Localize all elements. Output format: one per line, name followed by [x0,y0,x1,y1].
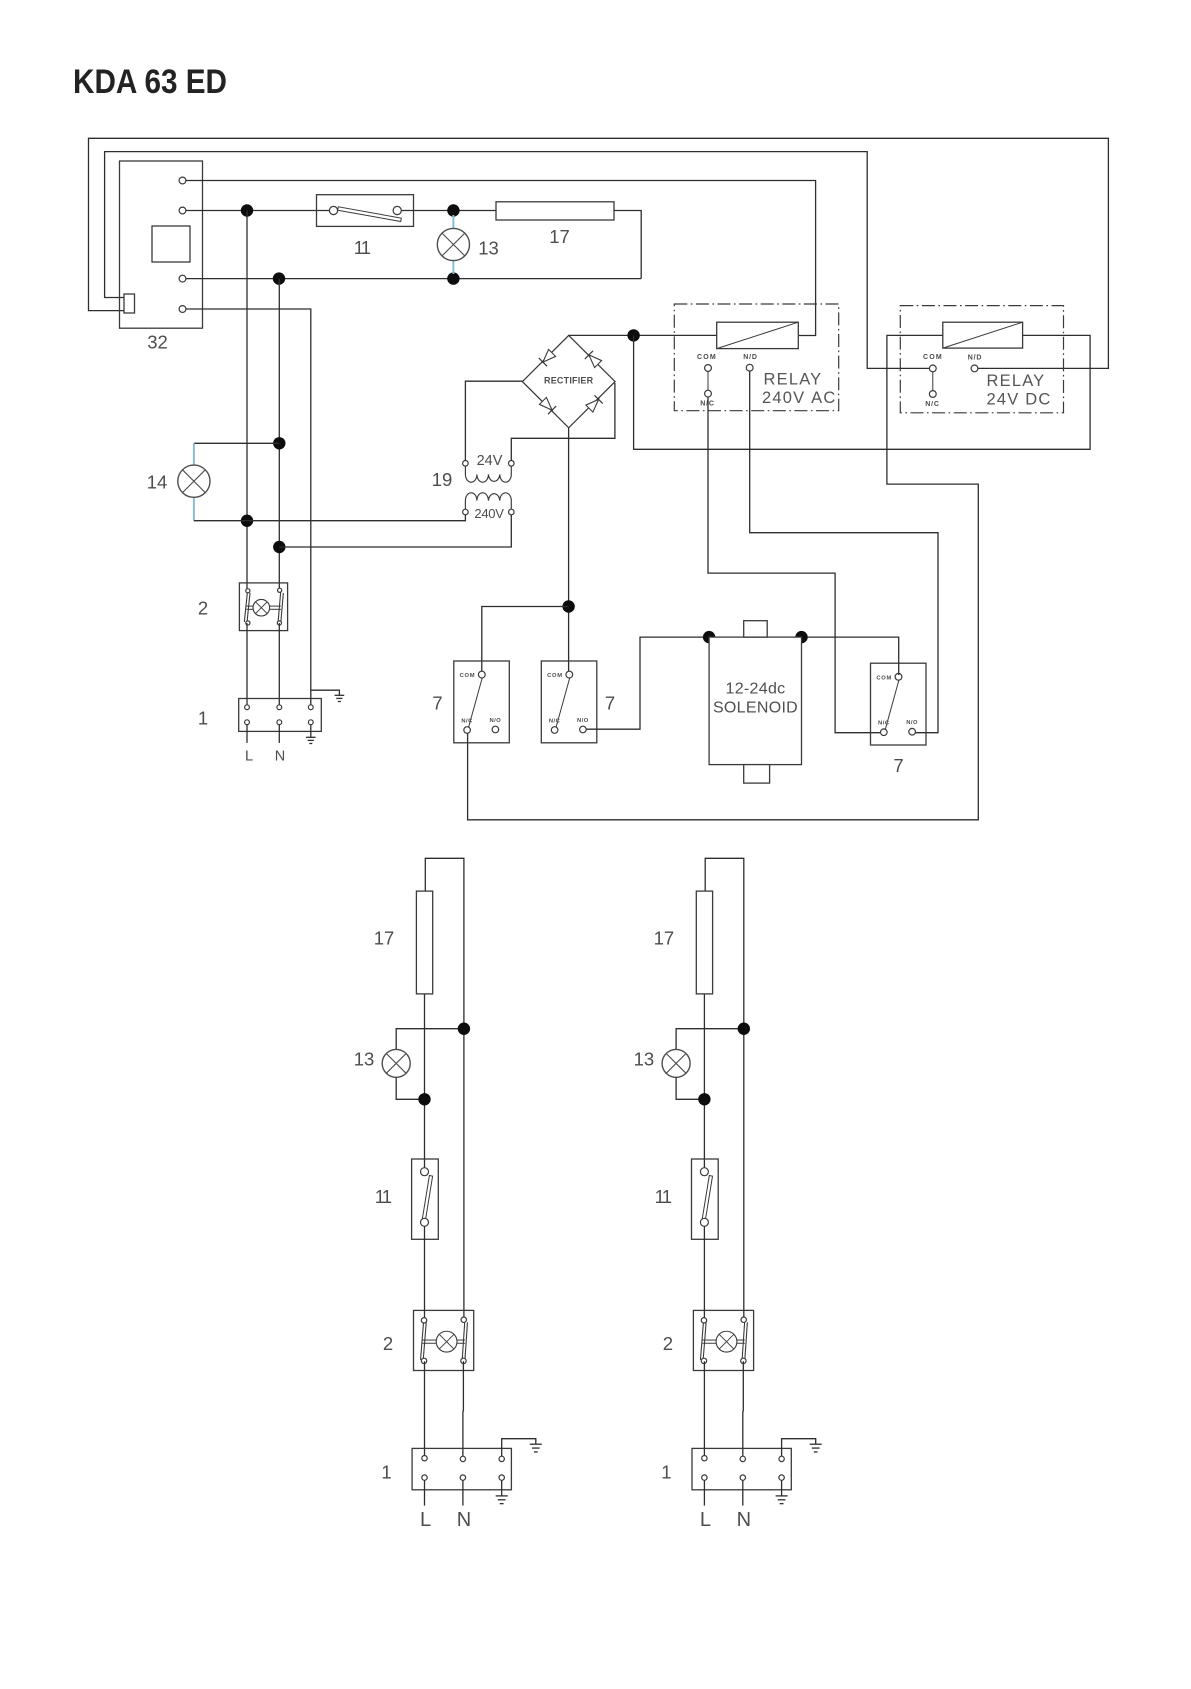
svg-text:L: L [700,1509,711,1531]
node: solenoid top right [795,631,807,643]
wire: blue lead bottom of lamp 14 [193,497,195,521]
transformer T19 240V pin left [463,509,469,515]
switch 11 (lower left) box [412,1159,439,1239]
svg-text:N/O: N/O [489,718,501,724]
relay K2 coil [943,322,1023,348]
node: lamp rejoin (lower right) [698,1093,710,1105]
svg-text:COM: COM [460,673,476,679]
wire: U32 pin1 to RELAY 240V AC coil right [186,181,816,336]
rectifier bridge diamond [522,335,615,427]
lamp 13 (lower right) [662,1049,690,1077]
wire: earth top branch (lower left) [502,1439,536,1457]
relay K1 N/C pin [705,390,712,397]
unit 2 (lower right) pin top-right [741,1317,746,1322]
wire: unit 2 to terminal L (lower right) [703,1361,705,1456]
svg-text:7: 7 [893,755,903,776]
wire: resistor 17 right loop down to lower row [614,211,641,279]
wire: outer frame line 2 (plug to RELAY 24V DC COM) [105,152,930,369]
relay K1 COM pin [705,365,712,372]
U32 pin 3 [179,275,186,282]
wire: K1 N/D down to switch 7 no.3 N/O [750,371,938,733]
svg-text:7: 7 [605,693,615,714]
switch 7 no.3 COM pin [895,673,902,680]
relay K2 COM pin [929,365,936,372]
svg-text:1: 1 [381,1462,391,1483]
unit 2 (lower left) lamp [436,1331,457,1352]
switch 7 no.1 N/C pin [464,727,471,734]
node: lamp branch on right rail (lower left) [458,1022,470,1034]
svg-text:13: 13 [354,1049,375,1070]
unit 2 (lower left) lamp leads [423,1339,437,1341]
svg-text:24V DC: 24V DC [987,391,1052,409]
wire: resistor to switch 11 (lower left) [424,994,426,1169]
svg-text:17: 17 [654,928,675,949]
transformer T19 240V pin right [509,509,515,515]
terminal 1 (top) pin 5 [277,720,282,725]
relay K1 contact lever [707,372,709,391]
switch 11 (lower left) lever [422,1176,432,1220]
lamp 13 (top) [437,228,469,260]
ground (upper right) (lower left) [530,1443,542,1445]
wire: terminal L lead (top) [246,725,248,743]
switch 11 (lower left) pin top [421,1168,429,1176]
switch 7 no.1 N/O pin [492,726,499,733]
solenoid bottom tab [744,765,770,784]
node: solenoid top left [703,631,715,643]
wire: switch 11 to unit 2 (lower right) [703,1226,705,1318]
resistor 17 (lower right) [696,891,712,994]
node: junction at lamp 13 bottom [447,272,459,284]
U32 pin 1 [179,177,186,184]
ground (terminal, top) [306,736,316,738]
svg-text:N/C: N/C [461,719,473,725]
wire: lamp 13 top branch (lower left) [396,1029,464,1050]
svg-text:2: 2 [198,598,208,619]
wire: terminal earth lead (top) [310,725,312,738]
wire: unit 2 to terminal N (lower left) [462,1361,465,1456]
switch 7 no.3 lever [885,680,899,729]
terminal 1 (lower right) pin 6 [779,1475,784,1480]
node: transformer 240V right branch [273,541,285,553]
controller U32 box [120,161,203,328]
switch 7 no.2 COM pin [566,671,573,678]
unit 2 (lower right) lamp [716,1331,737,1352]
wire: unit 2 to terminal N (top) [278,623,280,705]
unit 2 (lower right) left lever [700,1322,703,1360]
wire: unit 2 to terminal N (lower right) [742,1361,745,1456]
svg-text:COM: COM [923,354,943,361]
node: lamp14 top branch [273,437,285,449]
svg-text:COM: COM [697,354,717,361]
terminal 1 (lower right) pin 5 [740,1475,745,1480]
wire: lamp 13 bottom branch (lower left) [396,1077,424,1099]
terminal 1 (lower left) pin 4 [422,1475,427,1480]
wire: junction down and right to DC relay coil right [634,335,1091,449]
terminal 1 (top) pin 4 [245,720,250,725]
unit 2 (lower right) lamp leads [702,1339,716,1341]
switch 7 no.2 box [541,661,597,743]
U32 inner square [152,226,190,262]
svg-text:2: 2 [383,1333,393,1354]
wire: unit 2 to terminal L (lower left) [424,1361,426,1456]
ground (upper right) (lower right) [810,1443,822,1445]
terminal 1 (lower right) pin 1 [702,1456,707,1461]
wire: rectifier bottom down to switches 7 [568,428,570,672]
lamp 13 (lower left) [382,1049,410,1077]
node: rectifier output junction [627,329,639,341]
terminal 1 (top) pin 6 [308,720,313,725]
svg-text:19: 19 [432,469,453,490]
ground (terminal) (lower right) [776,1495,788,1497]
wire: rectifier top to AC relay coil [569,334,717,336]
transformer T19 secondary winding (24V) [465,466,511,482]
wire: vertical from node pin3 down to switch 2 [278,279,280,589]
U32 pin 2 [179,207,186,214]
ground (top earth) [335,694,345,696]
switch 11 (lower right) lever [702,1176,712,1220]
wire: U32 pin2 to switch 11 [186,210,329,212]
switch 7 no.3 N/C pin [881,729,888,736]
node: junction pin3/vertical [273,272,285,284]
wire: terminal L lead (lower left) [424,1480,426,1505]
wire: lamp 13 bottom branch (lower right) [676,1077,704,1099]
svg-text:N/D: N/D [743,354,757,361]
wire: outer frame line 1 (plug to RELAY 24V DC N/D) [89,138,1109,368]
node: lamp branch on right rail (lower right) [738,1022,750,1034]
relay K1 coil diagonal [717,322,799,348]
unit 2 (lower right) pin bottom-left [701,1358,706,1363]
wire: blue lead top of lamp 13 [452,215,454,229]
switch 7 no.3 N/O pin [909,728,916,735]
wire: terminal N lead (lower left) [462,1480,464,1505]
node: junction at lamp 13 top [447,204,459,216]
svg-text:11: 11 [354,237,371,258]
relay K1 240V AC dash-dot enclosure [674,304,838,411]
svg-text:RELAY: RELAY [987,372,1046,390]
solenoid box [709,637,801,765]
svg-text:RECTIFIER: RECTIFIER [544,376,594,386]
unit 2 (top) pin top-left [246,589,250,593]
svg-text:N/D: N/D [968,355,982,362]
wire: unit 2 to terminal L (top) [246,623,248,705]
switch 7 no.1 lever [469,678,483,727]
terminal 1 (lower left) pin 5 [460,1475,465,1480]
wire: vertical from node pin2 down to switch 2 [246,211,248,590]
terminal 1 (top) pin 3 [308,705,313,710]
switch 7 no.3 box [871,663,927,745]
solenoid top tab [744,621,768,637]
switch S11 box (top) [317,195,414,227]
svg-text:7: 7 [432,693,442,714]
wire: blue lead bottom of lamp 13 [452,260,454,274]
relay K2 contact lever [932,372,934,391]
svg-text:13: 13 [634,1049,655,1070]
switch-lamp unit 2 (top) box [239,583,287,631]
resistor 17 (top) [496,202,614,220]
node: switches 7 branch [562,600,574,612]
svg-text:17: 17 [549,226,570,247]
svg-text:14: 14 [147,472,168,493]
relay K1 N/D pin [746,364,753,371]
wire: terminal N lead (lower right) [742,1480,744,1505]
unit 2 (lower left) right lever [462,1322,465,1359]
lamp 14 [178,465,210,497]
unit 2 (lower right) right lever [742,1322,745,1359]
terminal 1 (lower left) pin 6 [499,1475,504,1480]
switch S11 lever [338,207,402,222]
terminal 1 (lower left) pin 3 [499,1456,504,1461]
switch 7 no.1 box [454,661,510,743]
wire: terminal earth lead (lower right) [781,1480,783,1496]
terminal 1 (lower left) pin 2 [460,1456,465,1461]
unit 2 (lower left) pin top-left [421,1318,426,1323]
terminal 1 (lower right) pin 2 [740,1456,745,1461]
svg-text:N: N [457,1509,471,1531]
wire: switch 11 to unit 2 (lower left) [424,1226,426,1318]
U32 plug connector [124,294,135,313]
svg-text:N/C: N/C [925,401,939,408]
wire: U32 pin3 row [186,278,641,280]
resistor 17 (lower left) [416,891,432,994]
wire: 24V left pin up to rectifier left [465,381,522,460]
svg-text:N: N [737,1509,751,1531]
wire: K2 coil left to switch 7 no.1 N/C [468,335,979,819]
wire: U32 pin4 to terminal block [186,309,311,705]
switch 7 no.2 N/C pin [551,727,558,734]
svg-text:11: 11 [375,1186,392,1207]
svg-text:COM: COM [876,675,892,681]
node: junction pin2/vertical [241,204,253,216]
unit 2 (top) right lever [278,592,280,621]
rectifier diode D2 (top-right) [585,351,602,368]
switch 7 no.1 COM pin [478,671,485,678]
unit 2 (lower left) pin top-right [461,1317,466,1322]
wire: branch to switch 7 no.1 COM [482,607,569,672]
wire: top bridge (lower left) [425,858,464,1318]
U32 pin 4 [179,306,186,313]
svg-text:RELAY: RELAY [764,371,823,389]
svg-text:240V AC: 240V AC [762,389,836,407]
unit 2 (lower right) pin bottom-right [741,1358,746,1363]
svg-text:L: L [420,1509,431,1531]
svg-text:17: 17 [374,928,395,949]
wire: lamp 14 bottom to transformer 240V left [194,515,466,521]
switch 11 (lower right) box [692,1159,719,1239]
terminal block 1 (lower left) [412,1448,511,1489]
switch-lamp unit 2 (lower right) box [693,1310,753,1370]
svg-text:N/O: N/O [577,718,589,724]
wire: 24V right pin to rectifier right [511,383,615,461]
svg-text:24V: 24V [477,453,503,469]
switch 7 no.2 lever [556,678,570,727]
wire: node to lamp 14 top [194,442,279,444]
svg-text:1: 1 [198,708,208,729]
switch S11 pin right [393,206,401,214]
rectifier diode D1 (top-left) [539,349,556,366]
unit 2 (top) lamp leads [246,605,253,607]
terminal 1 (lower right) pin 4 [702,1475,707,1480]
svg-text:11: 11 [655,1186,672,1207]
relay K1 coil [717,322,799,348]
svg-text:COM: COM [547,673,563,679]
svg-text:L: L [245,749,253,765]
wire: top bridge (lower right) [705,858,744,1318]
svg-text:32: 32 [147,332,168,353]
node: lamp14 bottom branch [241,515,253,527]
terminal 1 (top) pin 2 [277,705,282,710]
relay K2 N/C pin [929,391,936,398]
terminal 1 (lower left) pin 1 [422,1456,427,1461]
svg-text:2: 2 [663,1333,673,1354]
svg-text:12-24dc: 12-24dc [726,681,786,698]
wire: terminal earth lead (lower left) [501,1480,503,1496]
wire: resistor to switch 11 (lower right) [703,994,705,1169]
svg-text:240V: 240V [474,506,504,521]
svg-text:1: 1 [661,1462,671,1483]
unit 2 (lower left) left lever [421,1322,424,1360]
rectifier diode D4 (bottom-right) [585,395,602,412]
wire: lamp 13 top branch (lower right) [676,1029,744,1050]
unit 2 (top) left lever [244,593,247,622]
unit 2 (lower left) pin bottom-right [461,1358,466,1363]
relay K2 24V DC dash-dot enclosure [900,306,1063,413]
svg-text:N: N [275,749,285,765]
unit 2 (lower right) pin top-left [701,1318,706,1323]
rectifier diode D3 (bottom-left) [539,397,556,414]
svg-text:N/C: N/C [878,721,890,727]
transformer T19 24V pin right [509,461,515,467]
relay K2 coil diagonal [943,322,1023,348]
unit 2 (top) pin bottom-right [277,621,281,625]
switch S11 pin left [329,206,337,214]
svg-text:N/C: N/C [549,719,561,725]
wire: earth top branch (lower right) [782,1439,816,1457]
wire: terminal N lead (top) [278,725,280,743]
terminal 1 (lower right) pin 3 [779,1456,784,1461]
svg-text:13: 13 [478,238,499,259]
unit 2 (top) pin bottom-left [246,621,250,625]
wire: switch 7 no.2 N/O to solenoid top [586,637,899,729]
wire: K1 N/C down to switch 7 no.3 N/C [708,397,881,733]
svg-text:KDA 63 ED: KDA 63 ED [73,63,227,101]
svg-text:N/O: N/O [906,720,918,726]
unit 2 (lower left) pin bottom-left [421,1358,426,1363]
switch-lamp unit 2 (lower left) box [414,1310,474,1370]
wire: switch 11 to node A [401,210,496,212]
node: lamp rejoin (lower left) [418,1093,430,1105]
unit 2 (top) pin top-right [278,588,282,592]
terminal block 1 (lower right) [692,1448,791,1489]
transformer T19 24V pin left [463,461,469,467]
wire: terminal L lead (lower right) [703,1480,705,1505]
switch 11 (lower right) pin bottom [700,1218,708,1226]
transformer T19 primary winding (240V) [465,493,511,509]
wire: blue lead top of lamp 14 [193,443,195,465]
switch 11 (lower right) pin top [700,1168,708,1176]
unit 2 (top) lamp [253,599,270,616]
switch 7 no.2 N/O pin [580,726,587,733]
wire: 240V right pin down-left to node [279,515,511,547]
terminal block 1 (top) [239,699,322,732]
ground (terminal) (lower left) [496,1495,508,1497]
wire: earth branch [311,690,340,695]
relay K2 N/D pin [971,365,978,372]
svg-text:SOLENOID: SOLENOID [713,700,798,717]
terminal 1 (top) pin 1 [245,705,250,710]
switch 11 (lower left) pin bottom [421,1218,429,1226]
